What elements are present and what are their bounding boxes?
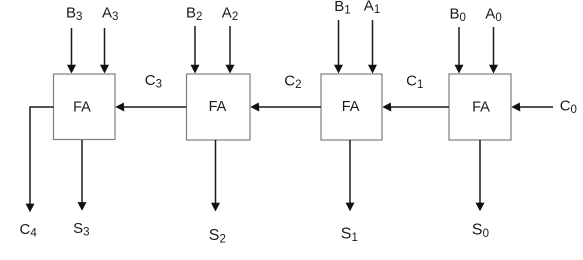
svg-text:FA: FA [472,99,490,115]
svg-text:FA: FA [209,99,227,115]
svg-text:FA: FA [342,99,360,115]
svg-text:FA: FA [73,99,91,115]
